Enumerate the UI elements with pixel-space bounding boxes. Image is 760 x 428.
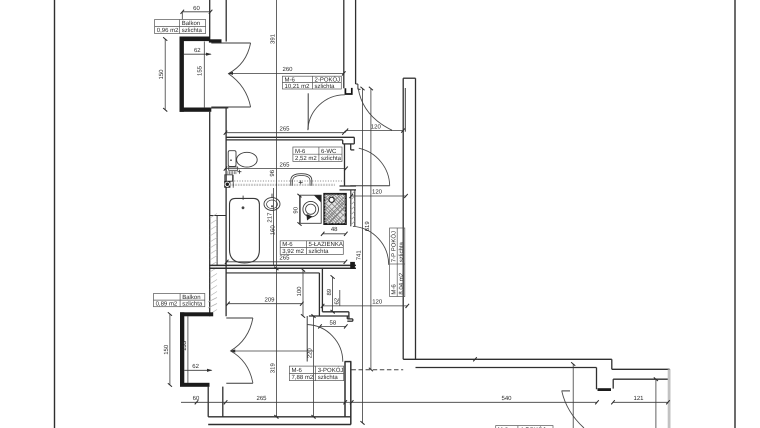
svg-text:217: 217 xyxy=(267,212,274,223)
svg-text:120: 120 xyxy=(372,299,383,306)
dim 619 vertical xyxy=(370,89,372,370)
svg-text:96: 96 xyxy=(269,169,276,176)
bathroom bottom wall inner line (3-POKOJ side) xyxy=(226,272,320,274)
balcony 1 hatched wall top band xyxy=(180,37,210,42)
WC door leaf xyxy=(350,185,389,187)
entry door leaf stub xyxy=(562,390,571,392)
svg-text:619: 619 xyxy=(364,221,371,232)
dim chain bottom 265 xyxy=(226,401,346,403)
svg-text:62: 62 xyxy=(192,363,199,370)
dim 150 balcony 2 xyxy=(169,314,171,385)
balcony 1 door swing arc upper xyxy=(228,43,250,74)
dark jamb below kitchen door xyxy=(350,262,355,269)
dim 150 balcony 1 xyxy=(164,39,166,110)
svg-text:540: 540 xyxy=(501,395,512,402)
dim 90 washer xyxy=(299,196,301,224)
dim chain bottom 60 xyxy=(181,401,226,403)
dim 89 xyxy=(332,277,334,312)
svg-text:7-P POKÓJ: 7-P POKÓJ xyxy=(389,231,397,262)
room 3-POKOJ door leaf xyxy=(306,316,308,362)
svg-text:2,52 m2: 2,52 m2 xyxy=(295,155,317,162)
svg-text:120: 120 xyxy=(372,189,383,196)
page border line left xyxy=(54,0,56,428)
svg-text:160: 160 xyxy=(270,225,277,236)
dim 209 xyxy=(228,303,302,305)
table room 4-POKOJ clipped at bottom xyxy=(496,426,553,428)
partition step walls at 3-POKOJ entry xyxy=(309,268,353,321)
table room 7-P POKOJ rotated xyxy=(390,228,405,297)
washbasin WC-side arch xyxy=(291,174,312,186)
extension line at entry door xyxy=(572,364,574,428)
svg-text:M-6: M-6 xyxy=(390,284,397,295)
entry door swing arc xyxy=(562,391,584,428)
wall between 3-POKOJ and 7-P POKOJ xyxy=(345,362,352,425)
exterior wall hatch xyxy=(208,214,217,315)
svg-text:szlichta: szlichta xyxy=(318,374,339,381)
svg-text:209: 209 xyxy=(264,297,275,304)
dim 120 corridor mid xyxy=(351,195,406,197)
dim 217 short line xyxy=(273,188,275,265)
svg-text:szlichta: szlichta xyxy=(309,248,330,255)
balcony 2 door swing arc upper xyxy=(231,318,253,351)
svg-text:6-WC: 6-WC xyxy=(321,148,337,155)
dim chain bottom 540 xyxy=(352,401,597,403)
kitchen-room door swing arc xyxy=(353,226,389,265)
wall exterior left top (beside balcony 1) xyxy=(210,0,227,42)
svg-text:szlichta: szlichta xyxy=(321,155,342,162)
svg-text:60: 60 xyxy=(193,5,200,12)
toilet seat piece xyxy=(229,167,238,170)
dim 58 xyxy=(320,325,346,327)
svg-text:260: 260 xyxy=(282,66,293,73)
svg-text:0,96 m2: 0,96 m2 xyxy=(157,27,179,34)
svg-text:58: 58 xyxy=(330,320,337,327)
dim line 391/96/160/319 vertical chain xyxy=(275,0,277,417)
svg-text:62: 62 xyxy=(333,297,340,304)
balcony 2 hatched wall bottom band xyxy=(180,383,210,387)
dim 265 bathroom xyxy=(227,261,346,263)
dim 155 balcony 2 xyxy=(187,316,189,383)
balcony 1 hatched wall bottom band xyxy=(180,108,212,112)
WC door swing arc xyxy=(359,148,390,186)
entry door leaf along corridor wall xyxy=(404,88,406,132)
dashed line closing 7-P POKOJ bottom xyxy=(351,369,403,371)
dim 62 balcony 1 xyxy=(184,53,211,55)
table balcony 1 xyxy=(155,20,206,34)
WC floor drain dark box with circle xyxy=(224,181,230,188)
bathroom bottom wall band xyxy=(209,265,356,268)
svg-text:89: 89 xyxy=(326,288,333,295)
svg-text:319: 319 xyxy=(269,363,276,374)
table room 2-POKOJ xyxy=(282,76,341,89)
room 2-POKOJ door swing arc xyxy=(308,95,345,130)
svg-text:90: 90 xyxy=(292,206,299,213)
dim 741 vertical xyxy=(362,89,364,423)
washing machine xyxy=(300,195,321,223)
svg-text:7,88 m2: 7,88 m2 xyxy=(292,374,314,381)
svg-text:Balkon: Balkon xyxy=(182,20,200,27)
balcony 2 double door leaf upper xyxy=(226,317,253,319)
svg-text:3-POKÓJ: 3-POKÓJ xyxy=(318,366,344,374)
dim chain bottom 121 xyxy=(613,401,668,403)
dim 100 xyxy=(302,270,304,316)
svg-text:2-POKÓJ: 2-POKÓJ xyxy=(315,75,341,83)
svg-text:M-6: M-6 xyxy=(282,241,293,248)
dim 220 xyxy=(313,316,315,417)
svg-text:62: 62 xyxy=(194,47,201,54)
balcony 1 double door leaf upper xyxy=(211,42,250,44)
wall right of room 2-POKOJ xyxy=(344,0,361,89)
svg-text:741: 741 xyxy=(355,250,362,261)
corridor bottom wall toward entry xyxy=(403,359,669,389)
bathroom right wall hatched strip xyxy=(351,190,355,226)
svg-text:8,04 m2: 8,04 m2 xyxy=(398,272,405,294)
balcony 2 hatched wall top band xyxy=(180,312,213,316)
svg-text:100: 100 xyxy=(296,286,303,297)
svg-text:5-ŁAZIENKA: 5-ŁAZIENKA xyxy=(309,241,343,248)
washbasin bathroom xyxy=(264,198,280,211)
svg-text:121: 121 xyxy=(633,395,644,402)
table balcony 2 xyxy=(154,294,205,307)
balcony 2 double door leaf lower xyxy=(226,382,253,384)
svg-text:265: 265 xyxy=(279,125,290,132)
dim line from balcony2 door to wall xyxy=(231,350,314,352)
window sill dark at balcony 1 door xyxy=(209,39,222,42)
dim 60 top balcony xyxy=(182,11,210,13)
dimension labels xyxy=(158,5,644,402)
entry door jamb dark mark xyxy=(598,388,612,391)
dim 265 WC top xyxy=(226,132,345,134)
bathtub tap tick xyxy=(242,196,244,200)
svg-text:Balkon: Balkon xyxy=(182,294,200,301)
svg-text:3,92 m2: 3,92 m2 xyxy=(282,248,304,255)
dim 62 small vertical xyxy=(339,290,341,306)
building bottom wall xyxy=(208,417,351,425)
svg-text:220: 220 xyxy=(306,348,313,359)
balcony 1 hatched wall left band xyxy=(180,37,184,112)
toilet bowl xyxy=(237,152,258,167)
svg-text:155: 155 xyxy=(197,65,204,76)
dim 155 balcony 1 xyxy=(203,42,205,109)
duct shaft hatched xyxy=(324,194,346,224)
dim 62+120 corridor low chain xyxy=(323,305,408,307)
washbasin tap tick xyxy=(271,194,273,198)
table bathroom 5-LAZIENKA xyxy=(280,241,343,255)
svg-text:391: 391 xyxy=(269,33,276,44)
dim 120 corridor top xyxy=(346,130,403,132)
balcony 1 double door leaf lower xyxy=(211,106,250,108)
balcony 2 door swing arc lower xyxy=(231,351,253,383)
page border line right xyxy=(734,0,736,428)
svg-text:265: 265 xyxy=(279,255,290,262)
table WC xyxy=(293,147,342,161)
WC tap cross xyxy=(237,170,241,174)
WC ticked mat xyxy=(226,171,237,174)
svg-text:150: 150 xyxy=(158,69,165,80)
ticked screed band xyxy=(232,184,336,186)
svg-text:10,21 m2: 10,21 m2 xyxy=(285,83,311,90)
extension line right of entry xyxy=(655,379,657,428)
svg-text:szlichta: szlichta xyxy=(315,83,336,90)
svg-text:szlichta: szlichta xyxy=(182,301,203,308)
arrow mark on corridor bottom wall xyxy=(475,358,478,360)
svg-text:155: 155 xyxy=(181,340,188,351)
wall exterior left mid (WC + bathroom) xyxy=(210,107,229,316)
svg-text:120: 120 xyxy=(371,123,382,130)
wall below balcony 2 xyxy=(208,387,223,417)
wall between 2-POKOJ and WC xyxy=(226,137,354,186)
bathtub drain dot xyxy=(242,206,245,209)
entry door swing arc from staircase xyxy=(358,88,392,130)
balcony 1 door swing arc lower xyxy=(228,74,250,107)
svg-text:150: 150 xyxy=(163,344,170,355)
svg-text:szlichta: szlichta xyxy=(398,242,405,263)
dim chain bottom connector xyxy=(345,401,352,403)
dim 319 arrows xyxy=(275,268,277,270)
dim 265 WC bottom xyxy=(226,168,347,170)
svg-text:M-6: M-6 xyxy=(295,148,306,155)
table room 3-POKOJ xyxy=(289,366,343,381)
dim 62 balcony 2 xyxy=(184,369,211,371)
WC hand basin xyxy=(225,175,233,181)
bathtub xyxy=(230,198,260,263)
dotted divider WC / bathroom xyxy=(232,180,345,182)
balcony 2 hatched wall left band xyxy=(180,312,184,386)
dim 260 room 2 xyxy=(228,72,343,74)
corridor wall right (long) xyxy=(403,78,415,359)
gray strip right of entry xyxy=(668,369,671,428)
svg-text:0,89 m2: 0,89 m2 xyxy=(156,301,178,308)
svg-text:M-6: M-6 xyxy=(285,76,296,83)
svg-text:265: 265 xyxy=(256,395,267,402)
dim 48 duct xyxy=(323,233,346,235)
door jamb dark foot at corridor entry xyxy=(345,88,351,94)
toilet cistern xyxy=(228,151,236,167)
wall piece right of divider xyxy=(340,186,357,190)
room 3-POKOJ door swing arc xyxy=(307,325,343,362)
svg-text:265: 265 xyxy=(279,161,290,168)
svg-text:M-6: M-6 xyxy=(292,367,303,374)
svg-text:szlichta: szlichta xyxy=(182,27,203,34)
svg-text:60: 60 xyxy=(193,395,200,402)
svg-text:48: 48 xyxy=(331,226,338,233)
room 2-POKOJ door leaf xyxy=(307,93,309,129)
